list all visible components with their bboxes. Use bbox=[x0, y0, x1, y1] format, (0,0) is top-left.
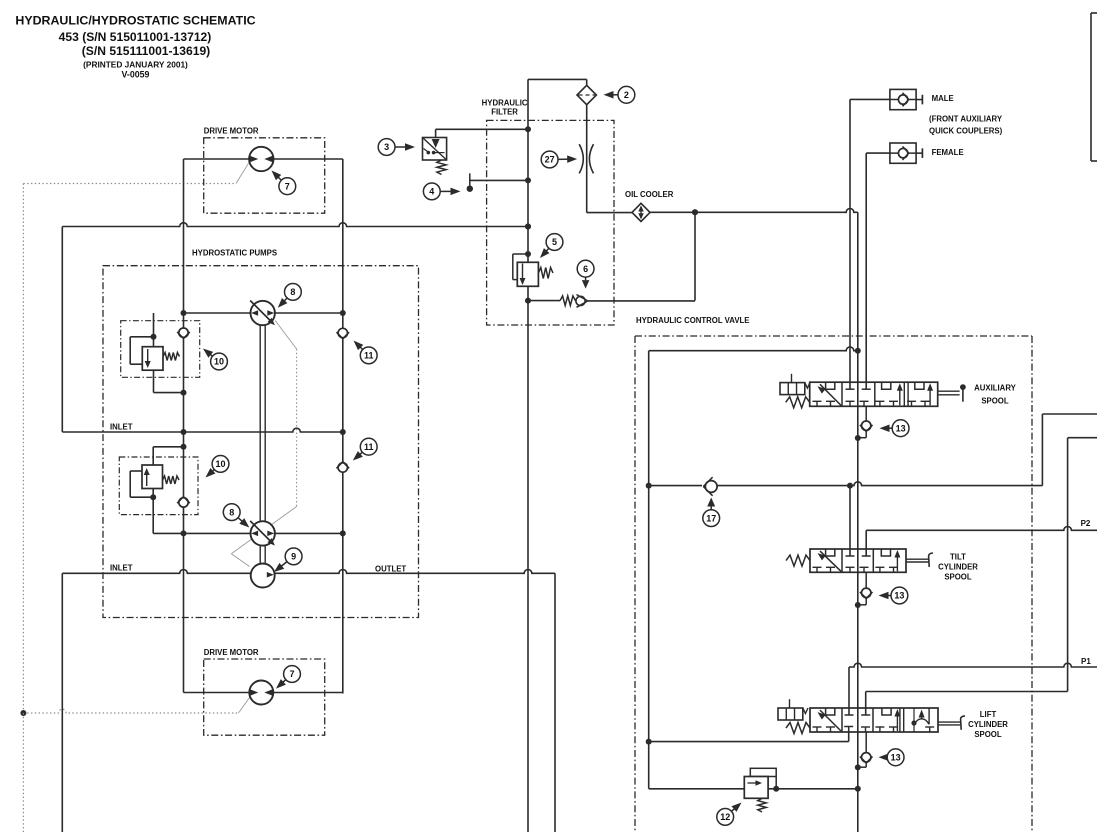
check valve (6) with spring bbox=[528, 295, 695, 308]
svg-text:6: 6 bbox=[583, 264, 588, 274]
wire male riser bbox=[849, 99, 851, 389]
drive motor box top bbox=[204, 138, 325, 213]
svg-text:12: 12 bbox=[720, 812, 730, 822]
svg-text:CYLINDER: CYLINDER bbox=[968, 720, 1008, 729]
label 9 bbox=[280, 562, 287, 567]
svg-text:(PRINTED JANUARY 2001): (PRINTED JANUARY 2001) bbox=[83, 59, 188, 69]
wire center riser bbox=[857, 212, 859, 832]
wire filter top loop bbox=[528, 78, 587, 80]
svg-text:3: 3 bbox=[384, 142, 389, 152]
svg-text:CYLINDER: CYLINDER bbox=[938, 563, 978, 572]
label 6 bbox=[577, 260, 594, 288]
wire relief5 bottom junction bbox=[525, 298, 531, 304]
wire female riser bbox=[865, 153, 867, 389]
svg-text:V-0059: V-0059 bbox=[122, 70, 150, 80]
label 7 bottom bbox=[282, 680, 286, 684]
svg-text:QUICK COUPLERS): QUICK COUPLERS) bbox=[929, 127, 1003, 136]
svg-text:17: 17 bbox=[706, 513, 716, 523]
charge pump (9) bbox=[251, 564, 275, 588]
label 13 aux bbox=[888, 427, 893, 429]
wire P2 line bbox=[866, 527, 1097, 557]
relief valve (5) bbox=[513, 251, 553, 286]
wire right aux return bbox=[866, 438, 1097, 715]
pump P2 lower (8) bbox=[250, 521, 275, 546]
case drain dotted line top bbox=[23, 161, 250, 713]
wire outlet drop bbox=[554, 573, 556, 832]
svg-text:FEMALE: FEMALE bbox=[932, 148, 964, 157]
svg-text:INLET: INLET bbox=[110, 423, 133, 432]
wire cooler to control riser bbox=[650, 209, 858, 213]
wire lift return line bbox=[646, 732, 849, 745]
wire motor bottom line bbox=[184, 692, 343, 694]
svg-text:5: 5 bbox=[552, 237, 557, 247]
wire aux feed riser bbox=[849, 486, 851, 556]
wire pump loop right vertical bbox=[342, 159, 344, 694]
wire charge junction dot bbox=[525, 224, 531, 230]
motor M1 top bbox=[249, 147, 273, 171]
label 11 upper bbox=[359, 346, 362, 349]
wire control inlet bbox=[649, 347, 861, 789]
lift cylinder spool valve bbox=[778, 699, 965, 733]
wire filter drop to bottom bbox=[527, 573, 529, 832]
wire inlet-outlet lower bbox=[62, 570, 555, 574]
svg-text:7: 7 bbox=[285, 181, 290, 191]
check valve 13 aux bbox=[855, 406, 873, 441]
swash plate linkage bbox=[231, 321, 296, 567]
svg-text:FILTER: FILTER bbox=[491, 108, 518, 117]
svg-text:AUXILIARY: AUXILIARY bbox=[974, 384, 1017, 393]
svg-text:DRIVE MOTOR: DRIVE MOTOR bbox=[204, 648, 259, 657]
svg-text:4: 4 bbox=[429, 187, 434, 197]
label 7 top bbox=[277, 176, 281, 180]
svg-text:9: 9 bbox=[291, 552, 296, 562]
wire filter to cooler bbox=[586, 105, 588, 213]
pump P1 upper (8) bbox=[250, 301, 275, 326]
wire motor top line bbox=[184, 158, 343, 160]
tilt spool label bbox=[938, 553, 978, 582]
label 2 bbox=[612, 94, 619, 96]
check valve in relief lower bbox=[179, 498, 188, 507]
male quick coupler bbox=[850, 89, 922, 109]
coupler note text bbox=[929, 115, 1003, 136]
svg-text:8: 8 bbox=[229, 507, 234, 517]
svg-text:HYDRAULIC CONTROL VAVLE: HYDRAULIC CONTROL VAVLE bbox=[636, 316, 750, 325]
svg-text:13: 13 bbox=[896, 423, 906, 433]
check valve in relief upper bbox=[179, 328, 188, 337]
svg-text:27: 27 bbox=[545, 155, 555, 165]
svg-text:2: 2 bbox=[624, 90, 629, 100]
label 4 bbox=[440, 190, 452, 192]
tilt cylinder spool valve bbox=[786, 549, 933, 572]
svg-text:10: 10 bbox=[215, 459, 225, 469]
svg-text:P2: P2 bbox=[1081, 519, 1091, 528]
label 5 bbox=[545, 248, 548, 252]
relief valve assembly upper (10) bbox=[121, 313, 200, 396]
svg-text:LIFT: LIFT bbox=[980, 710, 997, 719]
label 27 bbox=[558, 158, 569, 160]
orifice (27) bbox=[579, 144, 593, 173]
svg-text:SPOOL: SPOOL bbox=[974, 730, 1002, 739]
check valve 11 lower bbox=[338, 463, 347, 472]
svg-text:SPOOL: SPOOL bbox=[944, 573, 972, 582]
label 8 lower bbox=[238, 518, 243, 523]
svg-text:10: 10 bbox=[214, 357, 224, 367]
label 17 bbox=[703, 498, 720, 527]
svg-text:OIL COOLER: OIL COOLER bbox=[625, 190, 674, 199]
wire left vertical upper bbox=[61, 227, 63, 433]
svg-text:453 (S/N 515011001-13712): 453 (S/N 515011001-13712) bbox=[59, 30, 212, 44]
wire charge line to filter bbox=[62, 223, 528, 227]
svg-text:MALE: MALE bbox=[932, 94, 954, 103]
shaft lower bbox=[259, 546, 261, 565]
pressure switch (3) bbox=[423, 126, 532, 174]
wire left vertical lower bbox=[61, 573, 63, 832]
motor M2 bottom bbox=[249, 681, 273, 705]
lift spool label bbox=[968, 710, 1008, 739]
svg-text:SPOOL: SPOOL bbox=[981, 397, 1009, 406]
case drain dotted line bottom bbox=[20, 696, 251, 832]
label 11 lower bbox=[359, 452, 363, 455]
partial box top right bbox=[1091, 13, 1097, 161]
svg-text:DRIVE MOTOR: DRIVE MOTOR bbox=[204, 127, 259, 136]
wire pump upper line bbox=[184, 312, 343, 314]
wire bypass check line bbox=[646, 414, 1097, 489]
label 10 upper bbox=[209, 354, 212, 357]
svg-text:7: 7 bbox=[289, 669, 294, 679]
svg-text:13: 13 bbox=[891, 753, 901, 763]
hydraulic control valve box bbox=[635, 336, 1032, 832]
female quick coupler bbox=[866, 143, 922, 163]
main relief valve (12) bbox=[649, 768, 861, 812]
wire filter main vertical bbox=[527, 79, 529, 573]
svg-text:INLET: INLET bbox=[110, 564, 133, 573]
check valve 11 upper bbox=[338, 328, 347, 337]
svg-text:HYDROSTATIC PUMPS: HYDROSTATIC PUMPS bbox=[192, 249, 277, 258]
wire P1 line bbox=[849, 663, 1097, 715]
svg-text:HYDRAULIC/HYDROSTATIC SCHEMATI: HYDRAULIC/HYDROSTATIC SCHEMATIC bbox=[15, 14, 255, 28]
svg-text:HYDRAULIC: HYDRAULIC bbox=[482, 99, 528, 108]
label 12 bbox=[731, 808, 735, 812]
svg-text:(S/N 515111001-13619): (S/N 515111001-13619) bbox=[82, 44, 210, 58]
svg-text:13: 13 bbox=[894, 591, 904, 601]
check valve 13 tilt bbox=[855, 572, 873, 608]
check valve 13 lift bbox=[855, 732, 873, 770]
aux spool label bbox=[974, 384, 1017, 406]
hydrostatic pumps box bbox=[103, 266, 419, 618]
wire pump loop left vertical bbox=[183, 159, 185, 693]
hydraulic filter box bbox=[487, 120, 614, 325]
svg-text:11: 11 bbox=[364, 442, 374, 452]
test port (4) bbox=[467, 173, 531, 192]
filter element (2) bbox=[577, 85, 596, 104]
drive motor box bottom bbox=[204, 659, 325, 735]
svg-text:OUTLET: OUTLET bbox=[375, 565, 406, 574]
title block bbox=[15, 14, 255, 80]
svg-text:(FRONT AUXILIARY: (FRONT AUXILIARY bbox=[929, 115, 1003, 124]
label 8 upper bbox=[283, 298, 287, 302]
label 13 lift bbox=[886, 756, 889, 758]
label 10 lower bbox=[211, 470, 214, 473]
svg-text:P1: P1 bbox=[1081, 657, 1091, 666]
label 3 bbox=[395, 146, 407, 148]
auxiliary spool valve bbox=[780, 374, 966, 408]
relief valve assembly lower (10) bbox=[119, 444, 198, 534]
wire pump lower line bbox=[153, 532, 343, 534]
svg-text:11: 11 bbox=[364, 351, 374, 361]
oil cooler bbox=[625, 190, 674, 222]
svg-text:TILT: TILT bbox=[950, 553, 966, 562]
wire cooler bypass riser bbox=[694, 212, 696, 300]
svg-text:8: 8 bbox=[290, 287, 295, 297]
check valve 17 bbox=[702, 477, 718, 496]
label 13 tilt bbox=[887, 595, 892, 597]
wire inlet upper bbox=[62, 428, 343, 432]
shaft upper bbox=[259, 325, 261, 522]
